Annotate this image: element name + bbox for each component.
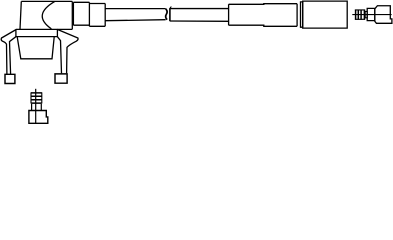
cable break mark [166,7,172,22]
terminal nut block with tab [375,6,392,24]
bracket right wing [57,29,78,73]
end cap D [303,1,348,28]
bracket left wing [1,30,16,75]
end cap rim [301,2,303,27]
bottom icon ribbed stud [31,92,42,103]
bracket left wing inner edge [10,37,16,75]
bottom icon nut block with tab [29,111,48,124]
sleeve junction [88,2,90,26]
terminal center line [352,14,391,16]
terminal ribbed stud [355,10,365,20]
elbow bend arc [42,1,55,28]
terminal neck [365,11,367,17]
bracket flange bar [16,29,72,36]
bracket right foot [55,74,67,83]
straight connector sleeve C (two stepped segments) [229,4,298,27]
elbow boot connector (left end) [20,1,72,29]
bracket right wing inner edge [57,37,61,74]
terminal small block [367,8,375,20]
sleeve segment B1 [73,2,89,25]
bracket left foot [5,74,15,83]
bottom icon neck [32,104,42,111]
cable left section [105,9,165,21]
bottom icon center line [35,89,37,123]
bracket inner box [17,37,54,59]
cable right section [170,9,229,22]
sleeve segment B2 [89,4,105,27]
